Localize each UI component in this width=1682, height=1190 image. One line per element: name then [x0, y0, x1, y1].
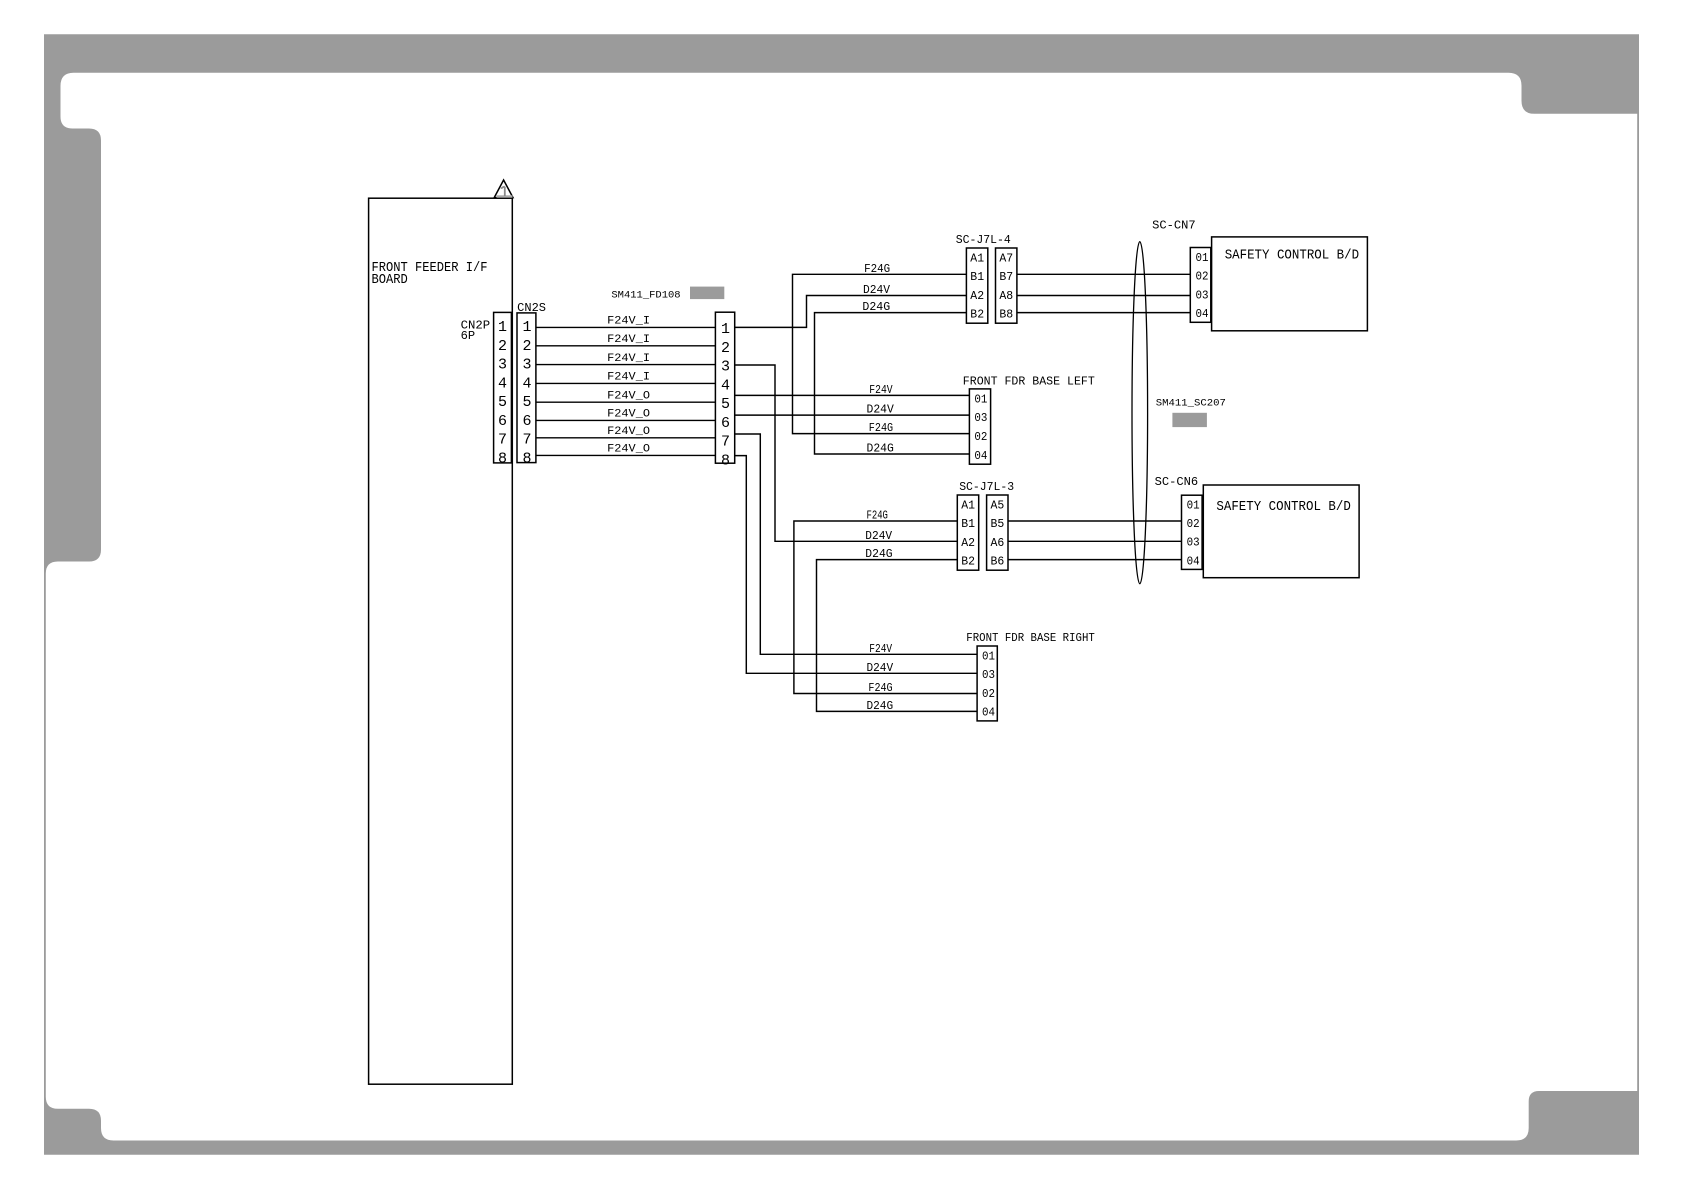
svg-text:F24G: F24G [869, 421, 893, 435]
svg-text:A6: A6 [991, 537, 1005, 550]
svg-text:4: 4 [522, 375, 531, 392]
svg-text:F24V_I: F24V_I [607, 316, 650, 328]
svg-text:3: 3 [498, 357, 507, 374]
svg-text:SC-J7L-3: SC-J7L-3 [959, 481, 1014, 494]
svg-text:8: 8 [522, 450, 531, 467]
svg-text:04: 04 [1196, 308, 1209, 321]
svg-text:03: 03 [974, 412, 987, 425]
svg-text:BOARD: BOARD [372, 273, 408, 288]
svg-text:1: 1 [498, 319, 507, 336]
svg-text:D24V: D24V [867, 661, 894, 675]
svg-text:SC-CN6: SC-CN6 [1155, 476, 1199, 489]
svg-text:B1: B1 [961, 518, 975, 531]
svg-text:F24V_O: F24V_O [607, 426, 650, 438]
svg-text:F24V_O: F24V_O [607, 444, 650, 456]
svg-text:03: 03 [1187, 537, 1200, 550]
svg-text:01: 01 [1196, 252, 1209, 265]
svg-text:A5: A5 [991, 499, 1005, 512]
svg-text:B1: B1 [970, 271, 984, 284]
svg-text:1: 1 [721, 321, 730, 338]
svg-text:F24V_O: F24V_O [607, 409, 650, 421]
svg-text:SC-J7L-4: SC-J7L-4 [956, 234, 1011, 247]
svg-text:F24V_O: F24V_O [607, 391, 650, 403]
svg-text:F24G: F24G [868, 681, 892, 695]
svg-text:04: 04 [974, 450, 987, 463]
svg-text:7: 7 [498, 432, 507, 449]
svg-text:D24G: D24G [862, 300, 890, 314]
svg-text:3: 3 [522, 357, 531, 374]
svg-text:03: 03 [1196, 289, 1209, 302]
svg-text:A2: A2 [970, 290, 984, 303]
svg-text:SAFETY CONTROL B/D: SAFETY CONTROL B/D [1225, 248, 1359, 263]
svg-text:B2: B2 [961, 556, 975, 569]
svg-text:03: 03 [982, 669, 995, 682]
svg-text:SC-CN7: SC-CN7 [1152, 220, 1196, 233]
svg-text:4: 4 [498, 375, 507, 392]
svg-text:01: 01 [1187, 500, 1200, 513]
svg-text:6P: 6P [461, 330, 476, 343]
svg-text:04: 04 [1187, 555, 1200, 568]
svg-text:5: 5 [721, 396, 730, 413]
svg-text:8: 8 [721, 452, 730, 469]
svg-text:6: 6 [721, 415, 730, 432]
svg-text:F24G: F24G [864, 262, 890, 276]
svg-text:4: 4 [721, 377, 730, 394]
svg-text:A7: A7 [999, 252, 1013, 265]
svg-text:7: 7 [721, 434, 730, 451]
svg-text:5: 5 [498, 394, 507, 411]
svg-text:A2: A2 [961, 537, 975, 550]
svg-text:FRONT FDR BASE LEFT: FRONT FDR BASE LEFT [963, 376, 1095, 389]
svg-text:04: 04 [982, 707, 995, 720]
svg-text:B7: B7 [999, 271, 1013, 284]
svg-text:A1: A1 [970, 252, 984, 265]
svg-text:01: 01 [974, 393, 987, 406]
svg-text:7: 7 [522, 432, 531, 449]
svg-text:5: 5 [522, 394, 531, 411]
svg-text:01: 01 [982, 650, 995, 663]
svg-text:D24G: D24G [865, 547, 892, 561]
svg-text:F24V_I: F24V_I [607, 353, 650, 365]
svg-text:02: 02 [1187, 518, 1200, 531]
svg-text:B8: B8 [999, 309, 1013, 322]
svg-text:6: 6 [522, 413, 531, 430]
svg-text:F24G: F24G [867, 509, 888, 523]
svg-text:D24G: D24G [867, 442, 894, 456]
svg-text:D24G: D24G [867, 699, 894, 713]
svg-text:F24V: F24V [869, 642, 892, 656]
svg-text:B6: B6 [991, 556, 1005, 569]
svg-text:8: 8 [498, 450, 507, 467]
svg-text:D24V: D24V [863, 283, 891, 297]
svg-text:1: 1 [522, 319, 531, 336]
svg-text:FRONT FDR BASE RIGHT: FRONT FDR BASE RIGHT [966, 632, 1095, 645]
svg-text:SM411_FD108: SM411_FD108 [611, 289, 680, 301]
svg-text:F24V_I: F24V_I [607, 372, 650, 384]
svg-text:B5: B5 [991, 518, 1005, 531]
svg-text:B2: B2 [970, 309, 984, 322]
svg-text:6: 6 [498, 413, 507, 430]
svg-text:02: 02 [974, 431, 987, 444]
svg-text:D24V: D24V [867, 403, 895, 417]
svg-text:02: 02 [1196, 271, 1209, 284]
svg-text:SM411_SC207: SM411_SC207 [1156, 398, 1226, 410]
svg-text:CN2S: CN2S [517, 302, 546, 315]
svg-text:F24V: F24V [869, 383, 893, 397]
svg-text:A1: A1 [961, 499, 975, 512]
svg-text:SAFETY CONTROL B/D: SAFETY CONTROL B/D [1216, 500, 1350, 515]
svg-text:2: 2 [498, 338, 507, 355]
svg-text:2: 2 [721, 340, 730, 357]
svg-text:D24V: D24V [865, 529, 893, 543]
svg-text:02: 02 [982, 688, 995, 701]
svg-text:A8: A8 [999, 290, 1013, 303]
svg-text:F24V_I: F24V_I [607, 334, 650, 346]
svg-text:2: 2 [522, 338, 531, 355]
svg-text:3: 3 [721, 359, 730, 376]
